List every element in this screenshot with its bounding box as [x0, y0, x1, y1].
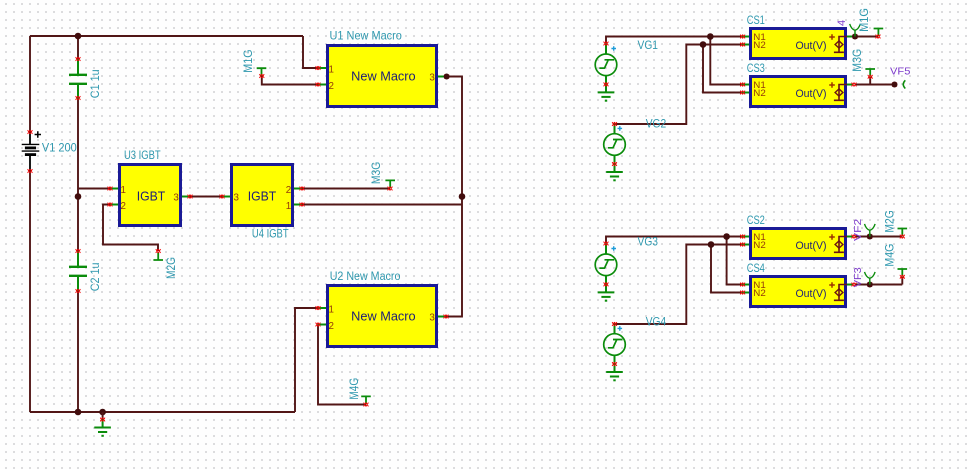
svg-text:U2 New Macro: U2 New Macro [330, 269, 401, 283]
svg-text:M4G: M4G [347, 378, 361, 400]
svg-text:U4 IGBT: U4 IGBT [252, 227, 289, 241]
svg-text:CS1: CS1 [747, 13, 765, 27]
svg-text:2: 2 [121, 201, 126, 212]
svg-text:N2: N2 [753, 88, 766, 99]
svg-text:VF3: VF3 [852, 267, 864, 287]
svg-text:M2G: M2G [882, 210, 896, 232]
svg-text:VG4: VG4 [646, 315, 667, 329]
svg-text:C2 1u: C2 1u [88, 263, 102, 292]
svg-text:1: 1 [121, 185, 126, 196]
svg-text:CS3: CS3 [747, 61, 765, 75]
svg-text:1: 1 [329, 64, 334, 75]
svg-text:VG3: VG3 [638, 235, 659, 249]
svg-text:VF5: VF5 [890, 66, 911, 78]
svg-text:2: 2 [329, 321, 334, 332]
svg-text:Out(V): Out(V) [796, 240, 827, 252]
svg-text:N2: N2 [753, 40, 766, 51]
svg-text:C1 1u: C1 1u [88, 69, 102, 98]
svg-text:VF2: VF2 [852, 219, 864, 241]
svg-text:2: 2 [286, 185, 291, 196]
svg-text:CS2: CS2 [747, 213, 765, 227]
svg-text:Out(V): Out(V) [796, 40, 827, 52]
svg-text:M1G: M1G [241, 49, 255, 72]
svg-text:IGBT: IGBT [137, 188, 166, 203]
svg-text:IGBT: IGBT [248, 188, 277, 203]
svg-text:V1 200: V1 200 [42, 140, 77, 154]
svg-text:1: 1 [286, 201, 291, 212]
svg-text:M4G: M4G [882, 244, 896, 267]
svg-text:4: 4 [836, 20, 848, 26]
svg-text:VG1: VG1 [638, 38, 659, 52]
svg-text:U1 New Macro: U1 New Macro [330, 29, 403, 43]
svg-text:CS4: CS4 [747, 261, 765, 275]
svg-text:New Macro: New Macro [351, 69, 416, 83]
svg-text:M3G: M3G [850, 49, 864, 72]
svg-text:U3 IGBT: U3 IGBT [124, 148, 161, 162]
svg-text:Out(V): Out(V) [796, 88, 827, 100]
svg-text:3: 3 [429, 72, 435, 83]
svg-text:3: 3 [234, 192, 240, 203]
svg-text:M3G: M3G [369, 162, 383, 184]
svg-text:M1G: M1G [857, 8, 871, 32]
svg-text:Out(V): Out(V) [796, 288, 827, 300]
svg-text:3: 3 [429, 312, 435, 323]
svg-text:VG2: VG2 [646, 117, 667, 131]
svg-text:2: 2 [329, 81, 334, 92]
svg-text:M2G: M2G [164, 257, 178, 279]
svg-text:N2: N2 [753, 240, 766, 251]
svg-text:3: 3 [173, 192, 179, 203]
svg-text:1: 1 [329, 304, 334, 315]
svg-text:New Macro: New Macro [351, 309, 416, 323]
svg-text:N2: N2 [753, 288, 766, 299]
